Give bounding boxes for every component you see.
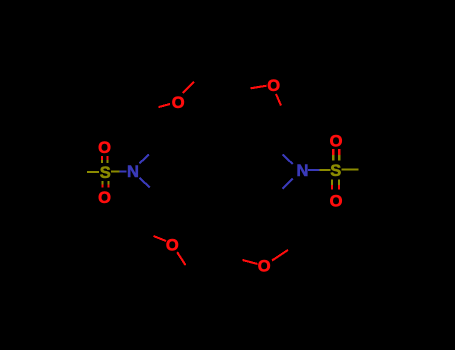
atom O6 (left sulfonyl bottom oxygen label) (98, 189, 111, 207)
atom O7 (right sulfonyl top oxygen label) (330, 133, 343, 151)
svg-text:O: O (166, 237, 179, 255)
bond N2-C upper-left stub (283, 155, 293, 165)
bond N2-C lower-left stub (283, 179, 293, 189)
svg-text:O: O (267, 77, 280, 95)
atom O5 (left sulfonyl top oxygen label) (98, 139, 111, 157)
svg-text:O: O (330, 133, 343, 151)
bond C-O3 upper-left stub (154, 236, 167, 241)
atom O1 (crown top-left oxygen label) (172, 94, 185, 112)
atom S2 (right sulfonyl sulfur label) (330, 162, 341, 180)
bond N1-C upper-right stub (139, 155, 149, 164)
bond N2-S2 (308, 169, 331, 171)
bond O2-C lower-right stub (276, 94, 281, 106)
atom O4 (crown bottom-right oxygen label) (258, 257, 271, 275)
svg-text:S: S (100, 164, 111, 182)
svg-text:O: O (172, 94, 185, 112)
bond N1-C lower-right stub (139, 178, 149, 188)
bond O1-C upper-right stub (183, 82, 194, 93)
atom O8 (right sulfonyl bottom oxygen label) (330, 192, 343, 210)
bond S1-N1 (111, 170, 127, 172)
svg-text:N: N (297, 162, 309, 180)
double bond S1=O5 (102, 156, 108, 163)
atom N1 (left ring nitrogen label) (127, 163, 139, 181)
bond O4-C upper-right stub (272, 250, 288, 261)
svg-text:O: O (98, 189, 111, 207)
atom O3 (crown bottom-left oxygen label) (166, 237, 179, 255)
bond C-O2 left stub (251, 86, 267, 89)
atom N2 (right ring nitrogen label) (297, 162, 309, 180)
bond C-O4 left stub (243, 260, 258, 264)
bond S1-CH3 left stub (87, 171, 99, 173)
double bond S2=O7 (333, 149, 339, 161)
bond S2-CH3 right stub (342, 168, 359, 170)
double bond S2=O8 (332, 179, 339, 189)
svg-text:S: S (330, 162, 341, 180)
double bond S1=O6 (102, 181, 108, 187)
bond O3-C lower-right stub (177, 252, 185, 265)
atom O2 (crown top-right oxygen label) (267, 77, 280, 95)
svg-text:O: O (98, 139, 111, 157)
svg-text:O: O (258, 257, 271, 275)
svg-text:O: O (330, 192, 343, 210)
bond C-O1 left stub (159, 104, 171, 107)
atom S1 (left sulfonyl sulfur label) (100, 164, 111, 182)
svg-text:N: N (127, 163, 139, 181)
